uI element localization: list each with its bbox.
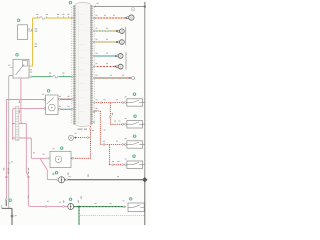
pink junction dot B [12,137,14,139]
wire red-yellow stripe [94,17,127,19]
gauge sender G1 [58,177,64,183]
grey dashed service line [78,214,144,216]
ground connector ticks [11,214,14,216]
wire pink diagonal branch [40,158,47,170]
yellow-grey arrow [116,41,118,43]
M1 motor circle [55,156,62,163]
K1 pin labels [30,69,32,72]
red-white labels [96,62,98,65]
ECU interior marks [77,6,79,124]
K1 left ground lead [9,75,13,208]
K2 pin labels [42,93,44,96]
ECU callout 1 [69,1,72,4]
yellow-grey labels [96,38,98,41]
pink junction dot A [12,123,14,125]
wire pink to pump [31,157,49,159]
wire black ground drop [2,200,12,225]
wire pink vertical x47 [46,170,48,180]
F1 stub to yellow [28,30,33,32]
ECU bottom label [78,129,83,130]
wire blue-green stripe [94,55,118,57]
pink ground pin [5,199,7,201]
green bottom labels [95,202,97,205]
ground bus labels [69,175,71,178]
wire pink inner vertical [12,109,14,140]
pink wire tick A [5,176,8,178]
C2 labels [62,200,65,203]
lamp connector circle [68,135,73,140]
M1 right pin [72,157,74,159]
ground drop spur [1,205,3,208]
M1 left pin [48,157,50,159]
inline connector on yellow vertical [32,28,33,31]
lamp L5 [116,66,118,68]
SW5 callout [129,197,132,200]
ground callout [9,199,12,202]
ECU left connector strip [73,5,76,125]
grey feed terminal label [131,8,134,11]
wire pink top branch [6,99,44,101]
wire grey top feed [94,6,145,8]
wire pink branch to x26 [13,123,27,125]
pin111 pin [95,110,97,112]
wire pink vertical x31 [30,138,32,158]
SW2 branch labels [112,113,113,115]
wire pink branch to x31 [13,137,32,139]
wire yellow-grey stripe [94,41,119,43]
yellow vertical labels [35,28,38,31]
SW3 wire pins [103,144,105,146]
SW4 wire pins [112,164,114,166]
wire yellow into relay [29,65,33,67]
yellow-blue labels [96,27,98,30]
pin111 labels [96,107,98,110]
ECU right pin bumps [93,17,95,19]
red-yellow arrow [126,17,128,19]
ECU module U1 body [76,2,91,126]
yellow-blue arrow [116,30,118,32]
wire blue-red to ECU [58,108,74,110]
wire green-black drop [78,207,80,225]
ECU right strip pin numbers [94,7,96,124]
relay K2 box [46,95,58,115]
pressure switch SW1 [124,93,145,107]
green wire labels [49,75,51,77]
wire pink left vertical [5,100,7,200]
wire green sensor [30,76,74,78]
green wire pin at relay [30,76,32,78]
G1 callout [55,171,58,174]
pink wire tick B [27,176,30,178]
wire red dashed branch to SW2 [109,103,111,125]
wire red dashed to SW3 [100,144,125,146]
wire pink K1 drop [21,78,23,124]
inline connector on green wire [52,76,59,78]
SW1 wire labels [96,98,98,101]
fusible link box F1 [18,25,28,40]
K1 drop labels [19,101,20,103]
red-blue wire pins [58,98,60,100]
K1 coil square [22,61,27,66]
ground bus junction diamond [142,177,147,182]
red-green arrow [129,77,131,79]
red-yellow labels [96,14,98,17]
K2 motor circle [48,104,55,111]
ECU right connector strip [90,5,93,125]
wire red-white stripe [94,66,118,68]
K1 left pin stub upper [10,66,13,68]
wire yellow feed horizontal [33,17,74,19]
red-white arrow [115,65,117,67]
lamp L3 [118,41,120,43]
connector circle C2 [68,204,74,210]
wire yellow vertical [32,18,34,66]
ground bus pins [57,179,59,181]
ECU right strip pin ticks [90,6,93,124]
blue-green labels [96,52,98,55]
K2 left pins [44,99,46,101]
M1 callout [60,147,63,150]
wire red dashed ECU bottom drop [90,126,92,159]
K2 callout [47,89,50,92]
relay K1 box [13,59,29,78]
F1 callout [17,19,20,22]
wire red dashed to SW4 [109,164,125,166]
blue-red wire pins [58,108,60,110]
SW2 wire labels [114,120,116,123]
green wire pin right [123,206,125,208]
wire pink second branch [13,108,45,110]
SW1 wire pins [100,102,102,104]
wire ground bus horizontal [64,179,145,181]
G1 labels [53,173,54,176]
ECU left strip pin ticks [73,6,76,124]
wire red dashed from lamp [76,137,91,139]
J1 rungs [15,109,19,140]
wire green-black bottom [73,206,125,208]
pressure switch SW4 [124,155,145,169]
lamp L4 [116,55,118,57]
wire pink vertical x26 [26,124,31,207]
wire red dashed vertical x100 [99,111,101,145]
green wire pin at ECU [71,76,73,78]
K2 switch contact [47,98,54,104]
blue-green arrow [115,55,117,57]
K1 callout [16,53,19,56]
red-green labels [96,74,98,77]
wire red dashed vertical x109 [108,145,110,165]
K1 switch contact [16,65,25,75]
SW4 wire labels [112,160,114,163]
yellow wire ECU pin [71,17,73,19]
grey bus vertical [144,3,146,180]
wire red-blue to ECU [58,98,74,100]
SW2 wire pin [122,123,124,125]
lamp L2 [118,30,120,32]
inline connector on yellow feed [39,17,46,19]
pump M1 box [50,151,71,167]
red-green terminal [132,77,135,80]
inline connector block J1 [15,107,19,141]
SW3 wire labels [103,140,105,143]
pressure switch SW3 [124,135,145,149]
bottom pink pin [63,206,65,208]
green drop junction dot [78,206,80,208]
C2 callout [69,198,72,201]
connector bar B2 [125,52,127,70]
wire pink bottom run [31,205,69,207]
wire red-green stripe [94,77,130,79]
M1 right wire red dashed [71,157,91,159]
wire red dashed to SW2 [110,123,125,125]
lamp L1 [127,17,129,19]
pink wire labels [3,168,4,171]
pressure switch SW2 [124,115,145,128]
wire yellow-blue stripe [94,30,119,32]
SW2 branch pin [109,116,111,118]
connector bar B1 [125,27,127,46]
grey bus top dot [144,5,146,7]
lamp wire pin [87,137,89,139]
wire pink into gauge [47,179,59,181]
ECU left strip pin numbers [71,7,73,124]
wire red dashed to SW1 [94,102,126,104]
switch box SW5 [128,203,144,212]
yellow feed wire code labels [36,16,38,18]
wire red dashed stub pin111 [94,110,101,112]
SW5 label [123,200,125,203]
